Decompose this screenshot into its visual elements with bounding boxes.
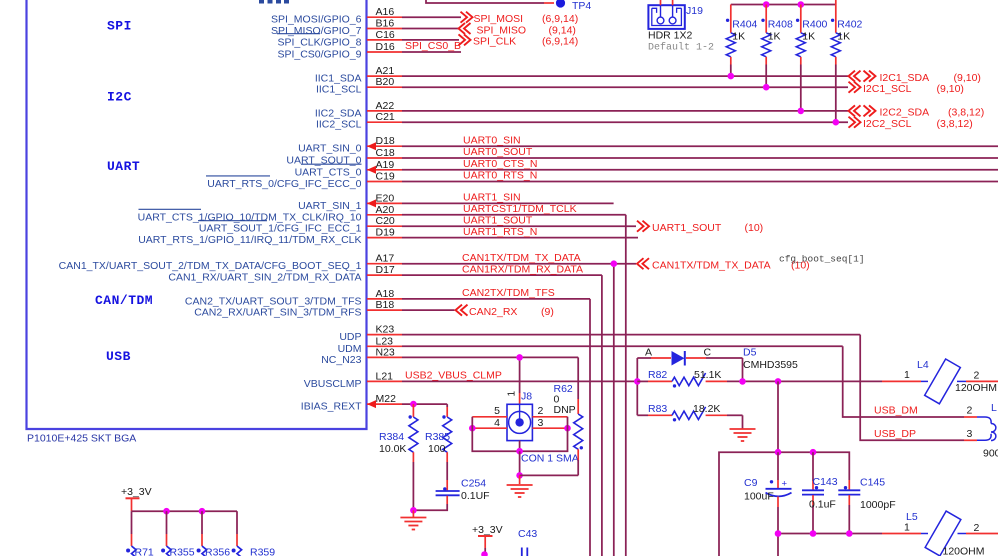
resistor R384 10.0K	[379, 404, 418, 510]
svg-text:L21: L21	[376, 370, 394, 382]
svg-text:CON 1 SMA: CON 1 SMA	[521, 453, 579, 465]
power +3_3V (left)	[121, 486, 152, 511]
svg-text:USB2_VBUS_CLMP: USB2_VBUS_CLMP	[405, 370, 502, 382]
svg-text:UART1_SIN: UART1_SIN	[463, 192, 521, 204]
test point TP4	[556, 0, 592, 12]
junction pin3	[564, 425, 571, 432]
resistor R355	[161, 511, 195, 556]
wire to TP4	[426, 0, 544, 3]
svg-text:NC_N23: NC_N23	[321, 354, 361, 366]
resistor R82 51.1K	[637, 369, 882, 387]
svg-text:(9,10): (9,10)	[937, 83, 964, 95]
svg-text:D5: D5	[743, 347, 757, 359]
connector J8 CON 1 SMA	[494, 391, 579, 465]
svg-text:C145: C145	[860, 477, 885, 489]
svg-text:C: C	[704, 347, 712, 359]
junction VBUS/caps	[775, 378, 782, 385]
svg-text:cfg_boot_seq[1]: cfg_boot_seq[1]	[779, 254, 865, 265]
off-page connector UART1_SOUT	[637, 221, 763, 234]
resistor R408 1K	[761, 5, 793, 88]
svg-text:C143: C143	[813, 476, 838, 488]
wire J8 pin5	[472, 416, 507, 418]
svg-text:(9): (9)	[541, 306, 554, 318]
svg-text:+: +	[782, 479, 788, 490]
svg-text:A20: A20	[376, 204, 395, 216]
connector J19	[648, 0, 714, 54]
junction pin4	[469, 425, 476, 432]
svg-text:C21: C21	[376, 111, 395, 123]
svg-text:CAN2_RX/UART_SIN_3/TDM_RFS: CAN2_RX/UART_SIN_3/TDM_RFS	[194, 307, 361, 319]
svg-text:C18: C18	[376, 147, 395, 159]
svg-text:B16: B16	[376, 18, 395, 30]
junction R404/I2C1_SDA	[728, 73, 735, 80]
svg-text:CAN1TX/TDM_TX_DATA: CAN1TX/TDM_TX_DATA	[652, 260, 771, 272]
svg-text:UDP: UDP	[339, 331, 361, 343]
svg-text:(10): (10)	[745, 222, 764, 234]
svg-text:D19: D19	[376, 227, 395, 239]
svg-text:J19: J19	[686, 5, 703, 17]
pin C16 SPI_CLK/GPIO_8	[277, 29, 459, 49]
resistor R71	[126, 511, 154, 556]
svg-text:C9: C9	[744, 477, 758, 489]
svg-text:UART0_CTS_N: UART0_CTS_N	[463, 158, 538, 170]
wire shield to ground	[519, 451, 521, 475]
pin A17 CAN1_TX/UART_SOUT_2/TDM_TX_DATA/CFG_BOOT_SEQ_1	[59, 253, 636, 273]
svg-text:R83: R83	[648, 403, 667, 415]
junction R384/C254 ground	[410, 507, 417, 514]
junction M22	[410, 401, 417, 408]
pin A21 IIC1_SDA	[315, 65, 848, 85]
diode D5 CMHD3595	[637, 347, 798, 372]
svg-text:18.2K: 18.2K	[693, 403, 720, 415]
svg-text:L: L	[991, 402, 997, 414]
svg-text:1K: 1K	[732, 31, 745, 43]
svg-text:CAN1TX/TDM_TX_DATA: CAN1TX/TDM_TX_DATA	[462, 252, 581, 264]
svg-text:D16: D16	[376, 41, 395, 53]
svg-text:A22: A22	[376, 100, 395, 112]
pin A20 UART_CTS_1/GPIO_10/TDM_TX_CLK/IRQ_10	[138, 204, 626, 224]
svg-text:UART_SIN_0: UART_SIN_0	[298, 143, 362, 155]
svg-text:HDR 1X2: HDR 1X2	[648, 30, 693, 42]
junction cap bus C9	[775, 449, 782, 456]
pin B16 SPI_MISO/GPIO_7	[271, 18, 459, 38]
svg-text:TP4: TP4	[572, 0, 591, 12]
off-page connector CAN2_RX	[456, 305, 554, 318]
junction R400/I2C2_SDA	[798, 108, 805, 115]
svg-text:0.1UF: 0.1UF	[461, 490, 490, 502]
svg-text:C20: C20	[376, 215, 395, 227]
wire J8 pin4	[472, 427, 507, 429]
node VBUSCLMP vertical	[636, 358, 638, 415]
pin A22 IIC2_SDA	[315, 100, 848, 120]
pin C21 IIC2_SCL	[316, 111, 848, 131]
svg-text:IIC1_SCL: IIC1_SCL	[316, 84, 362, 96]
svg-text:+3_3V: +3_3V	[121, 486, 152, 498]
svg-text:IIC2_SCL: IIC2_SCL	[316, 119, 362, 131]
junction ground T	[516, 472, 523, 479]
junction on rail	[763, 1, 770, 8]
svg-text:UART_CTS_0: UART_CTS_0	[295, 166, 362, 178]
pin A16 SPI_MOSI/GPIO_6	[271, 6, 461, 26]
svg-text:A: A	[645, 347, 652, 359]
junction VBUSCLMP	[634, 378, 641, 385]
wire J8 pin3	[532, 427, 567, 429]
svg-text:2: 2	[974, 522, 980, 534]
svg-text:(3,8,12): (3,8,12)	[948, 107, 984, 119]
svg-text:CAN2_TX/UART_SOUT_3/TDM_TFS: CAN2_TX/UART_SOUT_3/TDM_TFS	[185, 295, 362, 307]
pin K23 UDP	[339, 324, 860, 344]
svg-text:UART_SIN_1: UART_SIN_1	[298, 200, 362, 212]
svg-text:USB_DP: USB_DP	[874, 428, 916, 440]
pin C20 UART_SOUT_1/CFG_IFC_ECC_1	[199, 215, 636, 235]
svg-text:R384: R384	[379, 431, 404, 443]
svg-text:I2C2_SDA: I2C2_SDA	[880, 107, 930, 119]
svg-text:UART1_SOUT: UART1_SOUT	[463, 214, 533, 226]
junction bus R356	[199, 508, 206, 515]
svg-text:SPI_CS0_B: SPI_CS0_B	[405, 40, 461, 52]
svg-text:UART1_RTS_N: UART1_RTS_N	[463, 226, 537, 238]
ferrite bead L5 120OHM	[882, 511, 998, 556]
svg-text:1: 1	[507, 391, 518, 397]
svg-text:(6,9,14): (6,9,14)	[542, 36, 578, 48]
pin E20 UART_SIN_1	[298, 192, 614, 212]
overline SPI_CLK	[277, 33, 320, 35]
pin B18 CAN2_RX/UART_SIN_3/TDM_RFS	[194, 299, 454, 319]
svg-text:CAN1_TX/UART_SOUT_2/TDM_TX_DAT: CAN1_TX/UART_SOUT_2/TDM_TX_DATA/CFG_BOOT…	[59, 260, 362, 272]
ground below J8	[507, 475, 533, 497]
svg-text:UARTCST1/TDM_TCLK: UARTCST1/TDM_TCLK	[463, 203, 577, 215]
svg-text:SPI_MOSI/GPIO_6: SPI_MOSI/GPIO_6	[271, 14, 362, 26]
junction bottom bus C145	[846, 530, 853, 537]
svg-text:100uF: 100uF	[744, 491, 774, 503]
wire UDP to USB_DP	[860, 335, 964, 441]
svg-text:VBUSCLMP: VBUSCLMP	[304, 378, 362, 390]
svg-text:A17: A17	[376, 253, 395, 265]
resistor R400 1K	[796, 5, 828, 111]
power +3_3V (middle)	[472, 524, 503, 556]
svg-text:A18: A18	[376, 288, 395, 300]
svg-text:M22: M22	[376, 393, 397, 405]
svg-text:B20: B20	[376, 76, 395, 88]
resistor R404 1K	[726, 5, 758, 77]
svg-text:UART1_SOUT: UART1_SOUT	[652, 222, 722, 234]
svg-text:5: 5	[494, 405, 500, 417]
pin A18 CAN2_TX/UART_SOUT_3/TDM_TFS	[185, 288, 590, 308]
overline UART_CTS_0	[301, 163, 362, 165]
svg-text:R356: R356	[205, 547, 230, 556]
svg-text:1: 1	[904, 369, 910, 381]
wire VBUS drop to caps	[777, 381, 779, 452]
svg-text:0.1uF: 0.1uF	[809, 499, 836, 511]
resistor R356	[197, 511, 231, 556]
svg-text:J8: J8	[521, 391, 532, 403]
wire J8 pin2	[532, 416, 567, 418]
pin D16 SPI_CS0/GPIO_9	[277, 41, 461, 61]
svg-text:R71: R71	[135, 547, 154, 556]
svg-text:A19: A19	[376, 159, 395, 171]
svg-text:SPI: SPI	[107, 19, 132, 34]
svg-text:(6,9,14): (6,9,14)	[542, 13, 578, 25]
svg-text:R404: R404	[732, 19, 757, 31]
off-page connector SPI_MISO	[459, 23, 576, 36]
off-page connector CAN1TX/TDM_TX_DATA	[637, 258, 810, 271]
wire J8 body to shield	[519, 441, 521, 452]
ground below R83	[730, 429, 756, 441]
svg-text:SPI_MOSI: SPI_MOSI	[474, 13, 524, 25]
svg-text:UART0_SIN: UART0_SIN	[463, 134, 521, 146]
wire CAN2TX drop	[589, 299, 591, 556]
svg-text:UART0_RTS_N: UART0_RTS_N	[463, 170, 537, 182]
off-page connector I2C1_SDA	[849, 71, 981, 84]
svg-text:DNP: DNP	[554, 404, 576, 416]
resistor R385 100	[425, 404, 452, 480]
svg-text:3: 3	[538, 417, 544, 429]
wire N23 to J8 pin1	[519, 357, 521, 393]
svg-text:SPI_MISO/GPIO_7: SPI_MISO/GPIO_7	[271, 25, 362, 37]
svg-text:C16: C16	[376, 29, 395, 41]
wire UDM to USB_DM	[843, 346, 964, 417]
svg-text:(3,8,12): (3,8,12)	[937, 118, 973, 130]
wire CAN1TX drop	[613, 264, 615, 556]
overline UART_CTS_1	[139, 208, 202, 210]
svg-text:CAN1_RX/UART_SIN_2/TDM_RX_DATA: CAN1_RX/UART_SIN_2/TDM_RX_DATA	[168, 272, 361, 284]
svg-text:2: 2	[538, 405, 544, 417]
junction bottom bus C9	[775, 530, 782, 537]
svg-text:120OHM: 120OHM	[943, 545, 985, 556]
svg-text:SPI_CLK/GPIO_8: SPI_CLK/GPIO_8	[277, 36, 361, 48]
svg-text:1K: 1K	[802, 31, 815, 43]
svg-text:1000pF: 1000pF	[860, 499, 896, 511]
pin D17 CAN1_RX/UART_SIN_2/TDM_RX_DATA	[168, 264, 602, 284]
svg-text:C254: C254	[461, 478, 486, 490]
wire R62 bottom to ground T	[520, 474, 579, 476]
wire diode cathode down	[742, 358, 744, 381]
off-page connector I2C2_SDA	[849, 105, 985, 118]
junction CAN1TX	[611, 260, 618, 267]
capacitor C9 100uF	[744, 452, 792, 533]
svg-text:10.0K: 10.0K	[379, 443, 406, 455]
svg-text:Default 1-2: Default 1-2	[648, 42, 714, 54]
svg-text:SPI_CLK: SPI_CLK	[473, 36, 516, 48]
svg-text:4: 4	[494, 417, 500, 429]
svg-text:N23: N23	[376, 346, 395, 358]
svg-text:CAN2TX/TDM_TFS: CAN2TX/TDM_TFS	[462, 287, 555, 299]
svg-text:B18: B18	[376, 299, 395, 311]
svg-text:R82: R82	[648, 369, 667, 381]
off-page connector I2C2_SCL	[849, 117, 973, 130]
svg-text:R408: R408	[768, 19, 793, 31]
svg-text:IIC2_SDA: IIC2_SDA	[315, 107, 362, 119]
capacitor C254 0.1UF	[413, 478, 489, 511]
junction R402/I2C2_SCL	[833, 119, 840, 126]
svg-text:C19: C19	[376, 171, 395, 183]
svg-text:I2C1_SCL: I2C1_SCL	[863, 83, 912, 95]
pin A19 UART_CTS_0	[295, 159, 998, 179]
svg-text:UART_SOUT_1/CFG_IFC_ECC_1: UART_SOUT_1/CFG_IFC_ECC_1	[199, 223, 362, 235]
wire pull bank bus	[132, 510, 238, 512]
svg-text:R400: R400	[802, 19, 827, 31]
svg-text:CAN1RX/TDM_RX_DATA: CAN1RX/TDM_RX_DATA	[462, 263, 583, 275]
ground below R384	[400, 510, 426, 529]
capacitor C43	[518, 528, 537, 556]
svg-text:2: 2	[967, 404, 973, 416]
svg-text:900: 900	[983, 448, 998, 460]
junction bus R355	[163, 508, 170, 515]
pin D18 UART_SIN_0	[298, 135, 998, 155]
capacitor C143 0.1uF	[802, 452, 838, 533]
svg-text:1: 1	[904, 521, 910, 533]
resistor R83 18.2K	[637, 403, 742, 429]
svg-text:CAN/TDM: CAN/TDM	[95, 293, 153, 308]
junction N23/J8	[516, 354, 523, 361]
pin L21 VBUSCLMP	[304, 370, 638, 390]
svg-text:R385: R385	[425, 431, 450, 443]
junction cap bus C143	[810, 449, 817, 456]
svg-text:D17: D17	[376, 264, 395, 276]
svg-text:L4: L4	[917, 359, 929, 371]
svg-text:3: 3	[967, 428, 973, 440]
capacitor C145 1000pF	[838, 477, 895, 534]
svg-text:UART: UART	[107, 159, 140, 174]
svg-text:I2C2_SCL: I2C2_SCL	[863, 118, 912, 130]
resistor R359	[232, 511, 276, 556]
svg-text:K23: K23	[376, 324, 395, 336]
svg-text:P1010E+425 SKT BGA: P1010E+425 SKT BGA	[27, 433, 136, 445]
svg-text:D18: D18	[376, 135, 395, 147]
svg-text:+3_3V: +3_3V	[472, 524, 503, 536]
svg-text:A16: A16	[376, 6, 395, 18]
wire cap top bus	[719, 452, 849, 556]
svg-text:C43: C43	[518, 528, 537, 540]
svg-text:I2C: I2C	[107, 90, 132, 105]
svg-text:SPI_CS0/GPIO_9: SPI_CS0/GPIO_9	[277, 49, 361, 61]
svg-text:R402: R402	[837, 19, 862, 31]
svg-text:120OHM: 120OHM	[955, 382, 997, 394]
pin C19 UART_RTS_0/CFG_IFC_ECC_0	[207, 171, 998, 191]
pin B20 IIC1_SCL	[316, 76, 848, 96]
off-page connector I2C1_SCL	[849, 82, 964, 95]
svg-text:R355: R355	[170, 547, 195, 556]
overline UART_SOUT_1	[198, 220, 267, 222]
op-amp U1 : P1010E processor symbol box	[27, 0, 367, 429]
svg-text:1K: 1K	[768, 31, 781, 43]
svg-text:USB_DM: USB_DM	[874, 404, 918, 416]
wire cap bottom bus	[778, 534, 882, 556]
overline UART_RTS_0	[206, 175, 270, 177]
junction bottom edge	[481, 551, 488, 556]
resistor R402 1K	[831, 5, 863, 123]
svg-text:IBIAS_REXT: IBIAS_REXT	[301, 401, 362, 413]
svg-text:L5: L5	[906, 511, 918, 523]
svg-text:E20: E20	[376, 192, 395, 204]
svg-text:2: 2	[974, 370, 980, 382]
off-page connector SPI_CLK	[459, 34, 579, 47]
svg-text:UART_CTS_1/GPIO_10/TDM_TX_CLK/: UART_CTS_1/GPIO_10/TDM_TX_CLK/IRQ_10	[138, 211, 362, 223]
wire CAN1RX drop	[601, 275, 603, 556]
svg-text:CAN2_RX: CAN2_RX	[469, 306, 517, 318]
wire TDM_TCLK drop	[625, 215, 627, 556]
junction R408/I2C1_SCL	[763, 84, 770, 91]
off-page connector SPI_MOSI	[461, 12, 579, 25]
wire pullup rail	[731, 0, 836, 5]
svg-text:1K: 1K	[837, 31, 850, 43]
junction R82/D5	[739, 378, 746, 385]
pin L23 UDM	[338, 335, 843, 355]
wire J8 shield loop	[472, 417, 567, 451]
ferrite bead L4 120OHM	[882, 359, 998, 404]
svg-text:51.1K: 51.1K	[694, 369, 721, 381]
svg-text:R359: R359	[250, 547, 275, 556]
pin D19 UART_RTS_1/GPIO_11/IRQ_11/TDM_RX_CLK	[138, 227, 638, 247]
svg-text:CMHD3595: CMHD3595	[743, 359, 798, 371]
resistor R62 0 DNP	[554, 357, 584, 475]
svg-text:UART0_SOUT: UART0_SOUT	[463, 146, 533, 158]
svg-text:UART_RTS_1/GPIO_11/IRQ_11/TDM_: UART_RTS_1/GPIO_11/IRQ_11/TDM_RX_CLK	[138, 234, 361, 246]
clipped pin text fragments top edge	[259, 0, 264, 4]
svg-text:UART_RTS_0/CFG_IFC_ECC_0: UART_RTS_0/CFG_IFC_ECC_0	[207, 178, 361, 190]
svg-text:SPI_MISO: SPI_MISO	[477, 24, 527, 36]
svg-text:USB: USB	[106, 349, 131, 364]
junction shield	[516, 448, 523, 455]
pin N23 NC_N23	[321, 346, 578, 366]
pin M22 IBIAS_REXT	[301, 393, 447, 413]
svg-text:100: 100	[428, 443, 446, 455]
svg-text:(9,14): (9,14)	[549, 24, 576, 36]
pin C18 UART_SOUT_0	[286, 147, 998, 167]
common-mode choke L (edge)	[964, 402, 998, 460]
junction bottom bus C143	[810, 530, 817, 537]
